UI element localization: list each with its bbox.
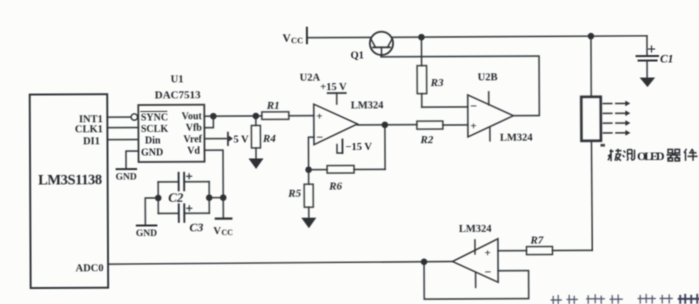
svg-text:C3: C3 <box>189 220 203 234</box>
svg-text:+: + <box>470 120 476 132</box>
node junction cap left <box>156 195 161 200</box>
svg-text:LM324: LM324 <box>500 133 533 144</box>
svg-text:−: − <box>485 265 492 279</box>
wire OLED bottom down <box>590 141 593 251</box>
wire cap left bus <box>157 182 159 213</box>
svg-text:R3: R3 <box>430 77 444 89</box>
svg-text:CC: CC <box>291 35 303 45</box>
wire feedback down <box>384 125 386 169</box>
ground (below C1) <box>640 78 656 88</box>
wire R1 to U2A <box>289 115 314 117</box>
op-amp U2A <box>300 72 385 144</box>
hanzi 件 <box>684 149 698 161</box>
svg-text:LM324: LM324 <box>351 100 384 111</box>
wire U2A inverting input <box>308 137 314 170</box>
wire Vcc rail right <box>393 36 647 37</box>
wire cap left to ground <box>145 198 158 225</box>
svg-text:+: + <box>316 111 322 123</box>
svg-text:Vout: Vout <box>182 111 203 122</box>
wire U2A output <box>357 124 416 126</box>
svg-text:CC: CC <box>221 228 233 237</box>
node junction R5/R6 <box>306 167 311 172</box>
node junction Vout/Vfb <box>211 114 216 119</box>
svg-text:GND: GND <box>136 229 157 239</box>
svg-text:R2: R2 <box>419 134 433 146</box>
svg-text:ADC0: ADC0 <box>76 263 104 274</box>
svg-text:+15 V: +15 V <box>320 82 347 93</box>
node junction R3 top <box>419 35 424 40</box>
wire cap right bus <box>208 182 210 213</box>
svg-text:−: − <box>470 99 477 113</box>
capacitor C3 <box>158 204 209 234</box>
node junction feedback/output <box>421 259 426 264</box>
svg-text:C2: C2 <box>168 190 184 205</box>
svg-text:CLK1: CLK1 <box>75 124 103 135</box>
node junction U2A out <box>382 122 387 127</box>
wire R2 to U2B <box>443 124 468 126</box>
light emission arrows <box>603 101 630 136</box>
resistor R5 <box>287 170 313 218</box>
wire U2B output to Q1 base <box>381 54 539 116</box>
speck <box>600 144 605 147</box>
IC U1 DAC7513 <box>138 74 204 162</box>
pin bubble on SYNC <box>131 114 137 120</box>
capacitor C1 <box>636 36 673 78</box>
svg-text:DAC7513: DAC7513 <box>155 89 201 101</box>
hanzi 器 <box>666 149 680 161</box>
wire U3 output to ADC0 <box>108 261 453 264</box>
ground GND (below C2) <box>136 225 157 239</box>
svg-text:C1: C1 <box>660 53 673 65</box>
resistor R3 <box>417 37 444 107</box>
IC LM3S1138 <box>30 94 108 288</box>
node junction Vout/R4 <box>253 113 258 118</box>
svg-text:DI1: DI1 <box>83 136 100 147</box>
svg-text:Vfb: Vfb <box>186 123 203 134</box>
resistor R4 <box>251 116 276 159</box>
resistor R1 <box>262 100 289 120</box>
power +5V flag <box>228 132 249 145</box>
svg-text:R5: R5 <box>287 188 301 200</box>
power Vcc flag bottom <box>213 219 233 238</box>
wire Vref to +5V <box>204 138 226 140</box>
wire Vfb loop <box>204 116 213 128</box>
svg-text:R1: R1 <box>266 100 280 112</box>
svg-text:GND: GND <box>116 173 137 183</box>
svg-text:V: V <box>213 226 221 237</box>
svg-text:OLED: OLED <box>637 149 665 163</box>
svg-text:LM3S1138: LM3S1138 <box>38 172 102 188</box>
ground (below R4) <box>249 158 264 169</box>
ground GND (below DAC) <box>116 169 137 183</box>
capacitor C2 <box>158 173 209 205</box>
svg-text:5 V: 5 V <box>233 134 249 145</box>
wire Vout to R1 <box>204 115 261 117</box>
op-amp U2B <box>468 72 534 144</box>
hanzi 测 <box>622 150 634 161</box>
svg-text:R7: R7 <box>529 235 543 247</box>
svg-text:SCLK: SCLK <box>141 124 169 135</box>
wire Vd down to Vcc flag <box>204 150 223 219</box>
svg-text:+: + <box>484 247 490 259</box>
wire Vcc rail left <box>307 36 370 38</box>
svg-text:Vd: Vd <box>187 146 200 157</box>
wire DAC GND pin to ground <box>126 151 139 169</box>
node junction cap right <box>207 195 212 200</box>
wire INT1 to SYNC bubble <box>107 116 130 118</box>
wire DI1 to Din <box>107 139 137 141</box>
resistor R6 <box>309 165 386 192</box>
node junction on Vd line <box>221 195 226 200</box>
svg-text:Din: Din <box>145 135 161 146</box>
node Vcc top <box>282 28 307 46</box>
label 被测OLED器件 <box>600 143 697 163</box>
svg-text:GND: GND <box>141 147 163 158</box>
hanzi 被 <box>608 149 622 162</box>
wire rail to OLED <box>590 36 592 97</box>
svg-text:Vref: Vref <box>183 134 202 145</box>
OLED device under test <box>581 97 601 141</box>
svg-text:−: − <box>316 130 323 144</box>
svg-text:U1: U1 <box>171 74 184 85</box>
power -15V (U2A) <box>337 139 372 153</box>
svg-text:−15 V: −15 V <box>345 142 372 153</box>
op-amp U3 LM324 buffer <box>452 224 498 288</box>
resistor R7 <box>498 234 592 254</box>
svg-text:U2B: U2B <box>478 72 498 83</box>
svg-text:R6: R6 <box>328 181 342 193</box>
wire R3 to U2B inverting input <box>422 106 468 108</box>
wire cap bus to Vd line <box>209 197 223 199</box>
wire U3 feedback <box>424 261 529 299</box>
resistor R2 <box>417 121 443 146</box>
caption fragment (clipped at page bottom) <box>551 294 672 303</box>
svg-text:Q1: Q1 <box>351 50 364 61</box>
power +15V (U2A) <box>320 82 347 104</box>
svg-text:SYNC: SYNC <box>141 112 168 123</box>
node junction OLED top <box>588 34 593 39</box>
ground (below R5) <box>301 218 316 229</box>
wire CLK1 to SCLK <box>107 127 137 129</box>
transistor Q1 <box>350 32 393 62</box>
svg-text:LM324: LM324 <box>459 224 492 235</box>
svg-text:R4: R4 <box>262 133 276 145</box>
svg-text:U2A: U2A <box>300 73 321 84</box>
